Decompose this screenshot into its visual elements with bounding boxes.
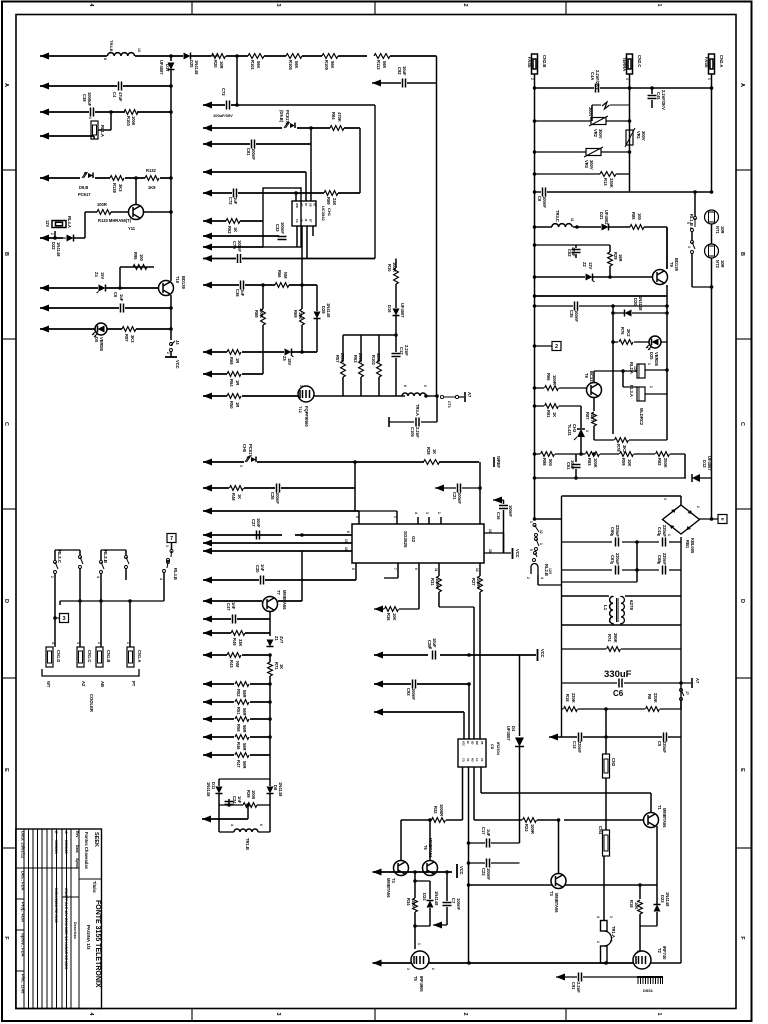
svg-text:220nF: 220nF — [662, 553, 667, 565]
svg-text:IS: IS — [304, 219, 307, 222]
wire net35 ladder 56R line1 — [203, 681, 212, 688]
relay RL2.B contact chain — [533, 524, 536, 527]
wire x667 vertical — [666, 227, 668, 269]
svg-text:R132: R132 — [146, 168, 157, 173]
resistor R32 1000R — [432, 818, 446, 823]
svg-text:12V: 12V — [45, 220, 50, 228]
wire net box 2 stub — [535, 345, 553, 347]
svg-text:AB: AB — [100, 681, 105, 687]
svg-text:1K: 1K — [237, 494, 242, 499]
wire R81 line y406 — [535, 405, 545, 407]
svg-text:E: E — [3, 768, 9, 772]
svg-text:100nF: 100nF — [486, 868, 491, 880]
svg-text:10K: 10K — [298, 312, 303, 320]
resistor R83 100K — [586, 452, 600, 457]
wire pin11 drop to C8 — [473, 607, 475, 739]
svg-text:56K: 56K — [382, 61, 387, 69]
bottom margin column ticks — [191, 1009, 193, 1022]
svg-text:16R: 16R — [618, 254, 623, 262]
wire G2 pin9 stub — [358, 511, 360, 524]
svg-text:C8: C8 — [537, 196, 542, 202]
svg-text:R48: R48 — [231, 493, 236, 501]
capacitor C12 2.2nF — [395, 335, 397, 352]
svg-text:11: 11 — [570, 218, 574, 222]
mosfet T5 IRF4905 — [411, 951, 429, 969]
svg-text:3: 3 — [529, 521, 533, 523]
wire TR1A bottom line — [603, 962, 605, 964]
svg-text:C91: C91 — [571, 982, 576, 990]
svg-text:1R: 1R — [235, 358, 240, 363]
zener Z4 15V — [99, 285, 106, 292]
svg-text:TERRA: TERRA — [622, 57, 627, 71]
wire mains phase vertical x534 — [534, 74, 536, 519]
wire net46 R24 line — [474, 819, 522, 821]
svg-text:R10: R10 — [387, 264, 392, 272]
svg-text:T9: T9 — [669, 262, 674, 268]
resistor R105 56K — [286, 54, 302, 59]
wire net48 C7 bottom line — [433, 922, 442, 929]
svg-text:4K7: 4K7 — [590, 414, 595, 422]
capacitor C47 1nF — [232, 615, 234, 624]
wire net25 R48 C26 line — [203, 485, 212, 492]
varistor VR1 vertical — [626, 130, 633, 145]
wire R78 line y440 — [594, 439, 614, 441]
resistor R113 1M — [374, 54, 390, 59]
svg-text:VERDE: VERDE — [99, 337, 104, 351]
jumper J7 contact — [680, 689, 683, 692]
wire T9 line y277 — [535, 276, 586, 278]
svg-text:R8: R8 — [647, 694, 652, 700]
svg-text:100K: 100K — [593, 458, 598, 468]
svg-text:100nF: 100nF — [251, 148, 256, 160]
svg-text:8: 8 — [346, 531, 350, 533]
svg-text:3: 3 — [425, 512, 429, 514]
wire TR3C line y227 — [535, 226, 553, 228]
svg-text:D21: D21 — [599, 212, 604, 220]
svg-text:TR1.B: TR1.B — [245, 838, 250, 850]
svg-text:R51: R51 — [236, 707, 241, 715]
resistor R97 3K3 — [122, 327, 136, 332]
LED D5 VERDE — [95, 323, 107, 335]
svg-text:R13: R13 — [603, 178, 608, 186]
svg-text:1: 1 — [656, 3, 662, 6]
svg-text:CN4: CN4 — [598, 826, 603, 835]
svg-text:C5: C5 — [657, 741, 662, 747]
resistor R76 2K2 — [619, 340, 633, 345]
svg-text:R103: R103 — [126, 116, 131, 127]
svg-text:VCC: VCC — [459, 866, 464, 875]
svg-text:J4: J4 — [175, 340, 180, 345]
net box output — [718, 515, 727, 524]
svg-text:R46: R46 — [236, 742, 241, 750]
svg-text:C4A: C4A — [590, 72, 595, 80]
svg-text:UF4002: UF4002 — [604, 210, 609, 225]
resistor R66 NM — [275, 283, 289, 288]
output box top edge — [562, 495, 682, 497]
wire net42 C93 line — [374, 681, 383, 688]
svg-text:RT: RT — [309, 219, 312, 223]
varistor VR3 300V — [535, 151, 587, 153]
svg-text:IRF740: IRF740 — [662, 946, 667, 960]
wire cap line y570 — [562, 569, 613, 571]
svg-text:VERDE: VERDE — [654, 352, 659, 366]
svg-text:T6: T6 — [423, 845, 428, 851]
svg-text:C8: C8 — [490, 744, 495, 750]
svg-text:Y11: Y11 — [128, 226, 136, 231]
diode D12 UF4007 — [692, 474, 700, 482]
capacitor C81 100nF — [251, 140, 253, 149]
svg-text:100R: 100R — [392, 262, 397, 272]
svg-text:10uF: 10uF — [570, 460, 575, 470]
zener Z5 18V — [285, 349, 292, 356]
wire net19 C38b R66 line — [203, 282, 212, 289]
svg-text:R88: R88 — [254, 310, 259, 318]
svg-text:1: 1 — [636, 950, 640, 952]
svg-text:INCLUINDO RE C105: INCLUINDO RE C105 — [54, 888, 58, 923]
svg-text:100: 100 — [139, 254, 144, 262]
transistor T10 BD139 — [159, 281, 174, 296]
svg-text:IR2304: IR2304 — [496, 742, 501, 756]
svg-text:10R: 10R — [219, 61, 224, 69]
zener Z1 4V7 vertical — [267, 640, 274, 647]
transistor T11 — [129, 205, 144, 220]
svg-text:R84: R84 — [331, 112, 336, 120]
svg-text:ON/OFF 24 E 48V COM MGE NO LUG: ON/OFF 24 E 48V COM MGE NO LUGAR DE MOS — [64, 888, 68, 970]
svg-text:C60: C60 — [610, 527, 615, 535]
svg-text:Data: Data — [75, 845, 79, 853]
svg-text:3: 3 — [406, 968, 410, 970]
capacitor C93 100nF — [412, 680, 414, 689]
svg-text:RT: RT — [304, 203, 307, 207]
connector CN1.B — [96, 647, 103, 667]
svg-text:13: 13 — [488, 529, 492, 533]
svg-text:4: 4 — [540, 577, 544, 579]
svg-text:100nF: 100nF — [574, 310, 579, 322]
wire net32 C47 line — [203, 616, 212, 623]
svg-text:10R: 10R — [720, 260, 725, 268]
wire RL2B to box — [537, 575, 539, 585]
svg-text:KBL005: KBL005 — [690, 538, 695, 554]
capacitor C7A 100nF — [237, 254, 239, 263]
IC UC3842 bottom pins — [296, 226, 298, 247]
wire R18 D23 join — [640, 925, 657, 927]
svg-text:C26: C26 — [270, 492, 275, 500]
svg-text:4: 4 — [51, 642, 55, 644]
svg-text:C: C — [739, 422, 745, 426]
svg-text:T8: T8 — [584, 373, 589, 379]
svg-text:C92: C92 — [397, 67, 402, 75]
svg-text:A7: A7 — [467, 392, 472, 398]
svg-text:PT: PT — [131, 681, 136, 687]
svg-text:T3: T3 — [549, 891, 554, 897]
svg-text:29/08/13: 29/08/13 — [64, 840, 68, 854]
wire net28 G3 pin13 line — [203, 540, 212, 547]
wire net11 opto2 line — [203, 125, 212, 132]
wire C21 arrow line — [435, 485, 444, 492]
capacitor C38 1000uF — [90, 108, 92, 117]
IC G2 SG3525 — [352, 524, 484, 563]
resistor R71 1K vertical — [269, 655, 271, 662]
svg-text:Aprov.: FDA: Aprov.: FDA — [21, 933, 26, 957]
svg-text:CN2.B: CN2.B — [542, 55, 547, 67]
svg-text:1uF: 1uF — [119, 294, 124, 302]
svg-text:1uF: 1uF — [233, 197, 238, 205]
wire CN2 to CN4 — [605, 778, 607, 830]
svg-text:C16: C16 — [496, 512, 501, 520]
wire mains line y88 — [535, 87, 595, 89]
svg-text:R102: R102 — [371, 355, 376, 366]
svg-text:D25: D25 — [649, 352, 654, 360]
resistor R66b 100R — [545, 386, 559, 391]
wire box2 top y625 — [562, 624, 682, 626]
resistor R88b 500 — [541, 452, 555, 457]
svg-text:R28: R28 — [426, 447, 431, 455]
svg-text:UF4007: UF4007 — [506, 726, 511, 741]
svg-text:C72: C72 — [228, 197, 233, 205]
resistor R89 24K — [324, 191, 338, 196]
svg-text:R50: R50 — [229, 401, 234, 409]
resistor R27 100R pin14 — [479, 563, 481, 576]
svg-text:VCC: VCC — [515, 549, 520, 558]
svg-text:GD: GD — [309, 203, 312, 207]
svg-text:A: A — [3, 83, 9, 87]
capacitor C62 47uF — [575, 245, 577, 248]
wire net43 LIN line — [374, 709, 383, 716]
svg-text:1N4148: 1N4148 — [194, 60, 199, 75]
svg-text:NM: NM — [283, 272, 288, 279]
svg-text:R81: R81 — [546, 410, 551, 418]
wire net41 VCC line — [374, 652, 383, 659]
svg-text:15: 15 — [488, 549, 492, 553]
wire D12 line y478 — [535, 477, 577, 479]
IC G2 pin13 pin15 stubs — [484, 532, 504, 534]
connector CN1.D — [46, 647, 53, 667]
svg-text:UF4007: UF4007 — [400, 303, 405, 318]
svg-text:C: C — [3, 422, 9, 426]
svg-text:R32: R32 — [433, 806, 438, 814]
svg-text:1nF: 1nF — [237, 796, 242, 804]
svg-text:2: 2 — [437, 512, 441, 514]
resistor R109 56K — [322, 54, 338, 59]
wire CN1 drops — [129, 601, 131, 647]
capacitor C24 1nF — [228, 799, 230, 805]
svg-text:FONTE 3155 TELETRONIX: FONTE 3155 TELETRONIX — [94, 900, 101, 988]
svg-text:56K: 56K — [294, 61, 299, 69]
wire net40 TR1B arrow line — [202, 816, 211, 823]
wire net1 top — [40, 53, 49, 60]
svg-text:1nF: 1nF — [260, 564, 265, 572]
svg-text:300V: 300V — [589, 160, 594, 170]
thermistor NT2 10R — [705, 244, 719, 258]
svg-text:A7: A7 — [695, 678, 700, 684]
wire R84 corner down — [359, 128, 361, 193]
power VCC bar right — [537, 649, 539, 661]
resistor R102 330K vertical — [378, 335, 380, 361]
svg-text:PC817: PC817 — [285, 110, 290, 123]
svg-text:SG3525: SG3525 — [403, 531, 408, 548]
wire x469 from IC to T5 line — [468, 863, 470, 963]
capacitor C4A 2.2nF/2KV — [595, 84, 597, 93]
svg-text:C28: C28 — [427, 640, 432, 648]
svg-text:VCC: VCC — [540, 649, 545, 658]
svg-text:7: 7 — [393, 568, 397, 570]
wire TR1B right vertical — [269, 805, 271, 832]
capacitor C4 47uF — [118, 82, 120, 91]
relay RL3.C contact — [54, 550, 56, 560]
IC G2 pin6 wire — [418, 563, 420, 609]
svg-text:D22: D22 — [51, 242, 56, 250]
resistor R103 1000 — [124, 110, 138, 115]
transistor T9 BD139 — [653, 270, 668, 285]
svg-text:BD139: BD139 — [674, 258, 679, 271]
svg-text:13: 13 — [344, 539, 348, 543]
wire CN2.C drop — [629, 74, 631, 192]
connector CN1.C — [77, 647, 84, 667]
svg-text:TR3.C: TR3.C — [555, 210, 560, 222]
svg-text:2.2nF: 2.2nF — [404, 345, 409, 356]
svg-text:R49: R49 — [232, 638, 237, 646]
resistor R18 10K vertical — [639, 885, 641, 899]
svg-text:SEEK: SEEK — [93, 832, 99, 847]
svg-text:15V: 15V — [100, 272, 105, 280]
svg-text:10nF: 10nF — [256, 518, 261, 528]
svg-text:D9.B: D9.B — [79, 185, 88, 190]
wire vertical from resistor chain to C73 — [236, 56, 238, 105]
svg-text:1000R: 1000R — [439, 804, 444, 816]
wire 250K ladder bottom bus — [343, 395, 405, 397]
capacitor C91 2.2nF — [578, 973, 580, 982]
svg-text:100nF: 100nF — [508, 505, 513, 517]
svg-text:3: 3 — [609, 916, 613, 918]
wire x613 vertical — [612, 306, 614, 434]
svg-text:R18: R18 — [565, 694, 570, 702]
svg-text:MMBTA06: MMBTA06 — [282, 590, 287, 610]
resistor R24 100R — [523, 818, 537, 823]
resistor R31 100R pin11 — [438, 563, 440, 576]
capacitor C61 10uF — [575, 454, 577, 462]
resistor R46 56R — [235, 735, 249, 740]
svg-text:10: 10 — [344, 547, 348, 551]
svg-text:C68: C68 — [657, 555, 662, 563]
svg-text:4: 4 — [414, 512, 418, 514]
svg-text:2: 2 — [649, 386, 653, 388]
capacitor C6 1uF — [120, 304, 122, 313]
resistor R133 100R — [85, 211, 97, 213]
diode D8 1N4148 vertical — [269, 779, 271, 786]
svg-text:12V: 12V — [588, 262, 593, 270]
svg-text:1R: 1R — [235, 380, 240, 385]
wire x469 vertical from C8 — [468, 684, 470, 739]
diode D17 UF4007 on bus — [170, 56, 172, 61]
svg-text:12: 12 — [539, 530, 543, 534]
svg-text:14: 14 — [475, 568, 479, 572]
resistor R58 56R — [235, 717, 249, 722]
wire output box right edge — [680, 537, 682, 737]
svg-text:NT2: NT2 — [715, 260, 720, 268]
thermistor NT1 10R — [705, 210, 719, 224]
svg-text:R87: R87 — [585, 412, 590, 420]
wire net21 R64 line — [203, 371, 212, 378]
svg-text:R24: R24 — [524, 824, 529, 832]
svg-text:R85: R85 — [631, 212, 636, 220]
bridge rectifier RB1 KBL005 — [663, 505, 700, 534]
connector CN2.A FASE — [709, 54, 715, 74]
capacitor C16 100nF — [503, 500, 505, 504]
wire x355 vertical — [354, 462, 356, 511]
svg-text:CN1.A: CN1.A — [137, 650, 142, 662]
capacitor C8 100nF input — [542, 188, 544, 197]
capacitor C72 1uF — [233, 189, 235, 198]
wire T3 emitter line — [469, 884, 553, 886]
wire CN4 to TR1A — [603, 856, 605, 921]
terminal A7 bar — [459, 396, 465, 398]
svg-text:WREF: WREF — [496, 456, 501, 469]
wire cooler bus — [60, 600, 164, 602]
resistor R62 1K — [226, 219, 240, 224]
resistor R69 10K vertical — [301, 285, 303, 309]
svg-text:D: D — [739, 599, 745, 603]
svg-text:C21: C21 — [452, 492, 457, 500]
resistor R78 3K2 — [615, 438, 629, 443]
svg-text:10/08/13: 10/08/13 — [54, 840, 58, 854]
svg-text:RL1.A: RL1.A — [100, 125, 105, 137]
svg-text:C33: C33 — [275, 224, 280, 232]
svg-text:56R: 56R — [242, 708, 247, 716]
svg-text:R68: R68 — [229, 357, 234, 365]
svg-text:B: B — [3, 252, 9, 256]
svg-text:R138: R138 — [112, 183, 117, 194]
svg-text:UF4007: UF4007 — [707, 456, 712, 471]
wire T8 collector to relays — [593, 371, 595, 382]
svg-text:(D9.B): (D9.B) — [279, 110, 284, 123]
svg-text:220K: 220K — [571, 693, 576, 703]
capacitor C33 100nF — [278, 236, 287, 238]
svg-text:100nF: 100nF — [457, 492, 462, 504]
svg-text:300V: 300V — [641, 131, 646, 141]
svg-text:100R: 100R — [259, 308, 264, 318]
transistor T7 MMBTA06 — [263, 597, 278, 612]
inductor TR3.C — [552, 224, 572, 227]
wire main right vertical x711 — [711, 287, 713, 478]
diode D22 1N4148 — [67, 235, 74, 242]
svg-text:R34: R34 — [406, 898, 411, 906]
svg-text:100nF: 100nF — [456, 898, 461, 911]
svg-text:500: 500 — [548, 459, 553, 467]
wire corner x667 down — [666, 227, 668, 269]
svg-text:Z4: Z4 — [94, 272, 99, 278]
svg-text:56K: 56K — [256, 61, 261, 69]
svg-text:1K8: 1K8 — [148, 185, 156, 190]
svg-text:B: B — [739, 252, 745, 256]
svg-text:R59: R59 — [621, 458, 626, 466]
svg-text:Fontes Chaveadas: Fontes Chaveadas — [84, 832, 89, 870]
resistor R84 470K — [330, 126, 344, 131]
svg-text:Des.: FDA: Des.: FDA — [21, 871, 26, 891]
svg-text:4: 4 — [96, 576, 100, 578]
wire net45 R32 line — [401, 819, 431, 821]
title block logo cell divider — [79, 878, 102, 880]
svg-text:10: 10 — [137, 48, 141, 52]
wire R28 corner to pin16 — [479, 462, 481, 524]
svg-text:R27: R27 — [471, 578, 476, 586]
connector CN2.C TERRA — [627, 54, 633, 74]
svg-text:A: A — [739, 83, 745, 87]
resistor R34 100 vertical — [413, 898, 418, 912]
svg-text:1: 1 — [539, 543, 543, 545]
svg-text:10K: 10K — [627, 459, 632, 467]
svg-text:TR4.B: TR4.B — [109, 40, 114, 52]
resistor R39 1000 — [219, 804, 243, 806]
